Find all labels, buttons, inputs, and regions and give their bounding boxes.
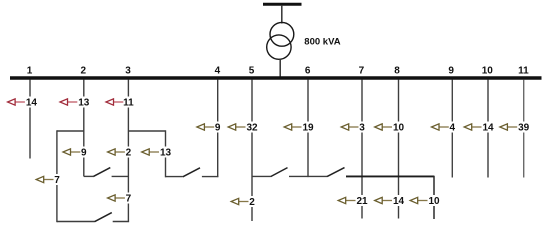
feeder 9 wire [451,80,453,178]
wire bottom left horizontal [57,221,95,223]
load arrow 14 on feeder 8 lower [375,195,406,207]
svg-text:13: 13 [160,148,172,159]
svg-text:2: 2 [81,66,87,77]
load arrow 3 at node 7 [341,122,366,134]
feeder 8 wire [398,80,400,219]
svg-text:6: 6 [305,66,311,77]
svg-text:1: 1 [27,66,33,77]
svg-text:9: 9 [215,123,221,134]
wire feeder2 bottom stub [84,175,93,177]
wire branch vertical x57 [56,130,58,222]
svg-text:2: 2 [126,148,132,159]
load arrow 9 on feeder 2 [63,147,88,159]
feeder 6 wire [307,80,309,178]
wire switch S5 across feeders 7 8 [346,175,434,177]
svg-text:21: 21 [356,196,368,207]
svg-text:10: 10 [482,66,494,77]
svg-text:14: 14 [482,123,494,134]
wire transformer to bus [279,59,281,79]
svg-text:9: 9 [81,148,87,159]
load arrow 13 on branch [142,147,173,159]
feeder 3 wire [127,80,129,222]
svg-text:7: 7 [54,175,60,186]
load arrow 4 at node 9 [432,122,457,134]
load arrow 10 at node 8 [375,122,406,134]
main bus [10,76,542,80]
svg-text:11: 11 [518,66,529,77]
switch S2 blade (open) [93,168,110,177]
load arrow 7 on left branch [36,174,61,186]
svg-text:3: 3 [359,123,365,134]
load arrow 11 at node 3 [106,97,135,109]
svg-text:800 kVA: 800 kVA [304,36,340,47]
feeder 5 wire [251,80,253,222]
feeder 1 wire [29,80,31,159]
load arrow 2 on feeder 3 [108,147,133,159]
switch S3 blade (open) [183,168,200,177]
load arrow 21 on feeder 7 lower [338,195,369,207]
wire branch vertical x434 [433,176,435,219]
switch S1 blade (open) [95,213,112,222]
wire switch S2 to feeder 3 [112,175,129,177]
svg-text:14: 14 [393,196,405,207]
svg-text:39: 39 [518,123,530,134]
switch S5 blade (open) [327,168,345,177]
load arrow 39 at node 11 [500,122,531,134]
svg-text:3: 3 [125,66,131,77]
switch S4 blade (open) [271,168,288,177]
svg-text:10: 10 [428,196,440,207]
wire switch S4 to switch S5 [289,175,327,177]
load arrow 10 on tie branch [410,195,441,207]
feeder 2 wire [83,80,85,177]
load arrow 32 at node 5 [228,122,259,134]
wire feeder5 to switch S4 [252,175,271,177]
svg-text:14: 14 [26,98,38,109]
load arrow 9 at node 4 [197,122,222,134]
wire switch S3 to feeder 4 [202,176,219,178]
svg-text:8: 8 [394,66,400,77]
svg-text:10: 10 [393,123,405,134]
svg-text:19: 19 [302,123,314,134]
feeder 7 wire [361,80,363,219]
svg-text:2: 2 [249,197,255,208]
wire tee node3 branch right [128,130,165,132]
feeder 4 wire [217,80,219,178]
svg-text:4: 4 [450,123,456,134]
load arrow 14 at node 10 [464,122,495,134]
utility source bar [263,3,302,6]
svg-text:5: 5 [249,66,255,77]
load arrow 7 on feeder 3 lower [108,193,133,205]
wire branch vertical x165 [165,130,167,177]
load arrow 19 at node 6 [284,122,315,134]
svg-text:32: 32 [246,123,258,134]
transformer T1 [267,22,294,59]
svg-text:7: 7 [359,66,365,77]
svg-text:7: 7 [126,194,132,205]
load arrow 13 at node 2 [60,97,91,109]
wire source to transformer [281,5,283,24]
load arrow 14 at node 1 [8,97,39,109]
wire branch bottom horizontal [166,176,183,178]
wire switch S1 to feeder 3 [113,221,129,223]
svg-text:9: 9 [448,66,454,77]
load arrow 2 on feeder 5 lower [231,196,256,208]
svg-text:13: 13 [78,98,90,109]
feeder 11 wire [523,80,525,178]
feeder 10 wire [487,80,489,178]
wire tee node2 branch left [57,130,84,132]
svg-text:11: 11 [123,98,134,109]
svg-text:4: 4 [215,66,221,77]
